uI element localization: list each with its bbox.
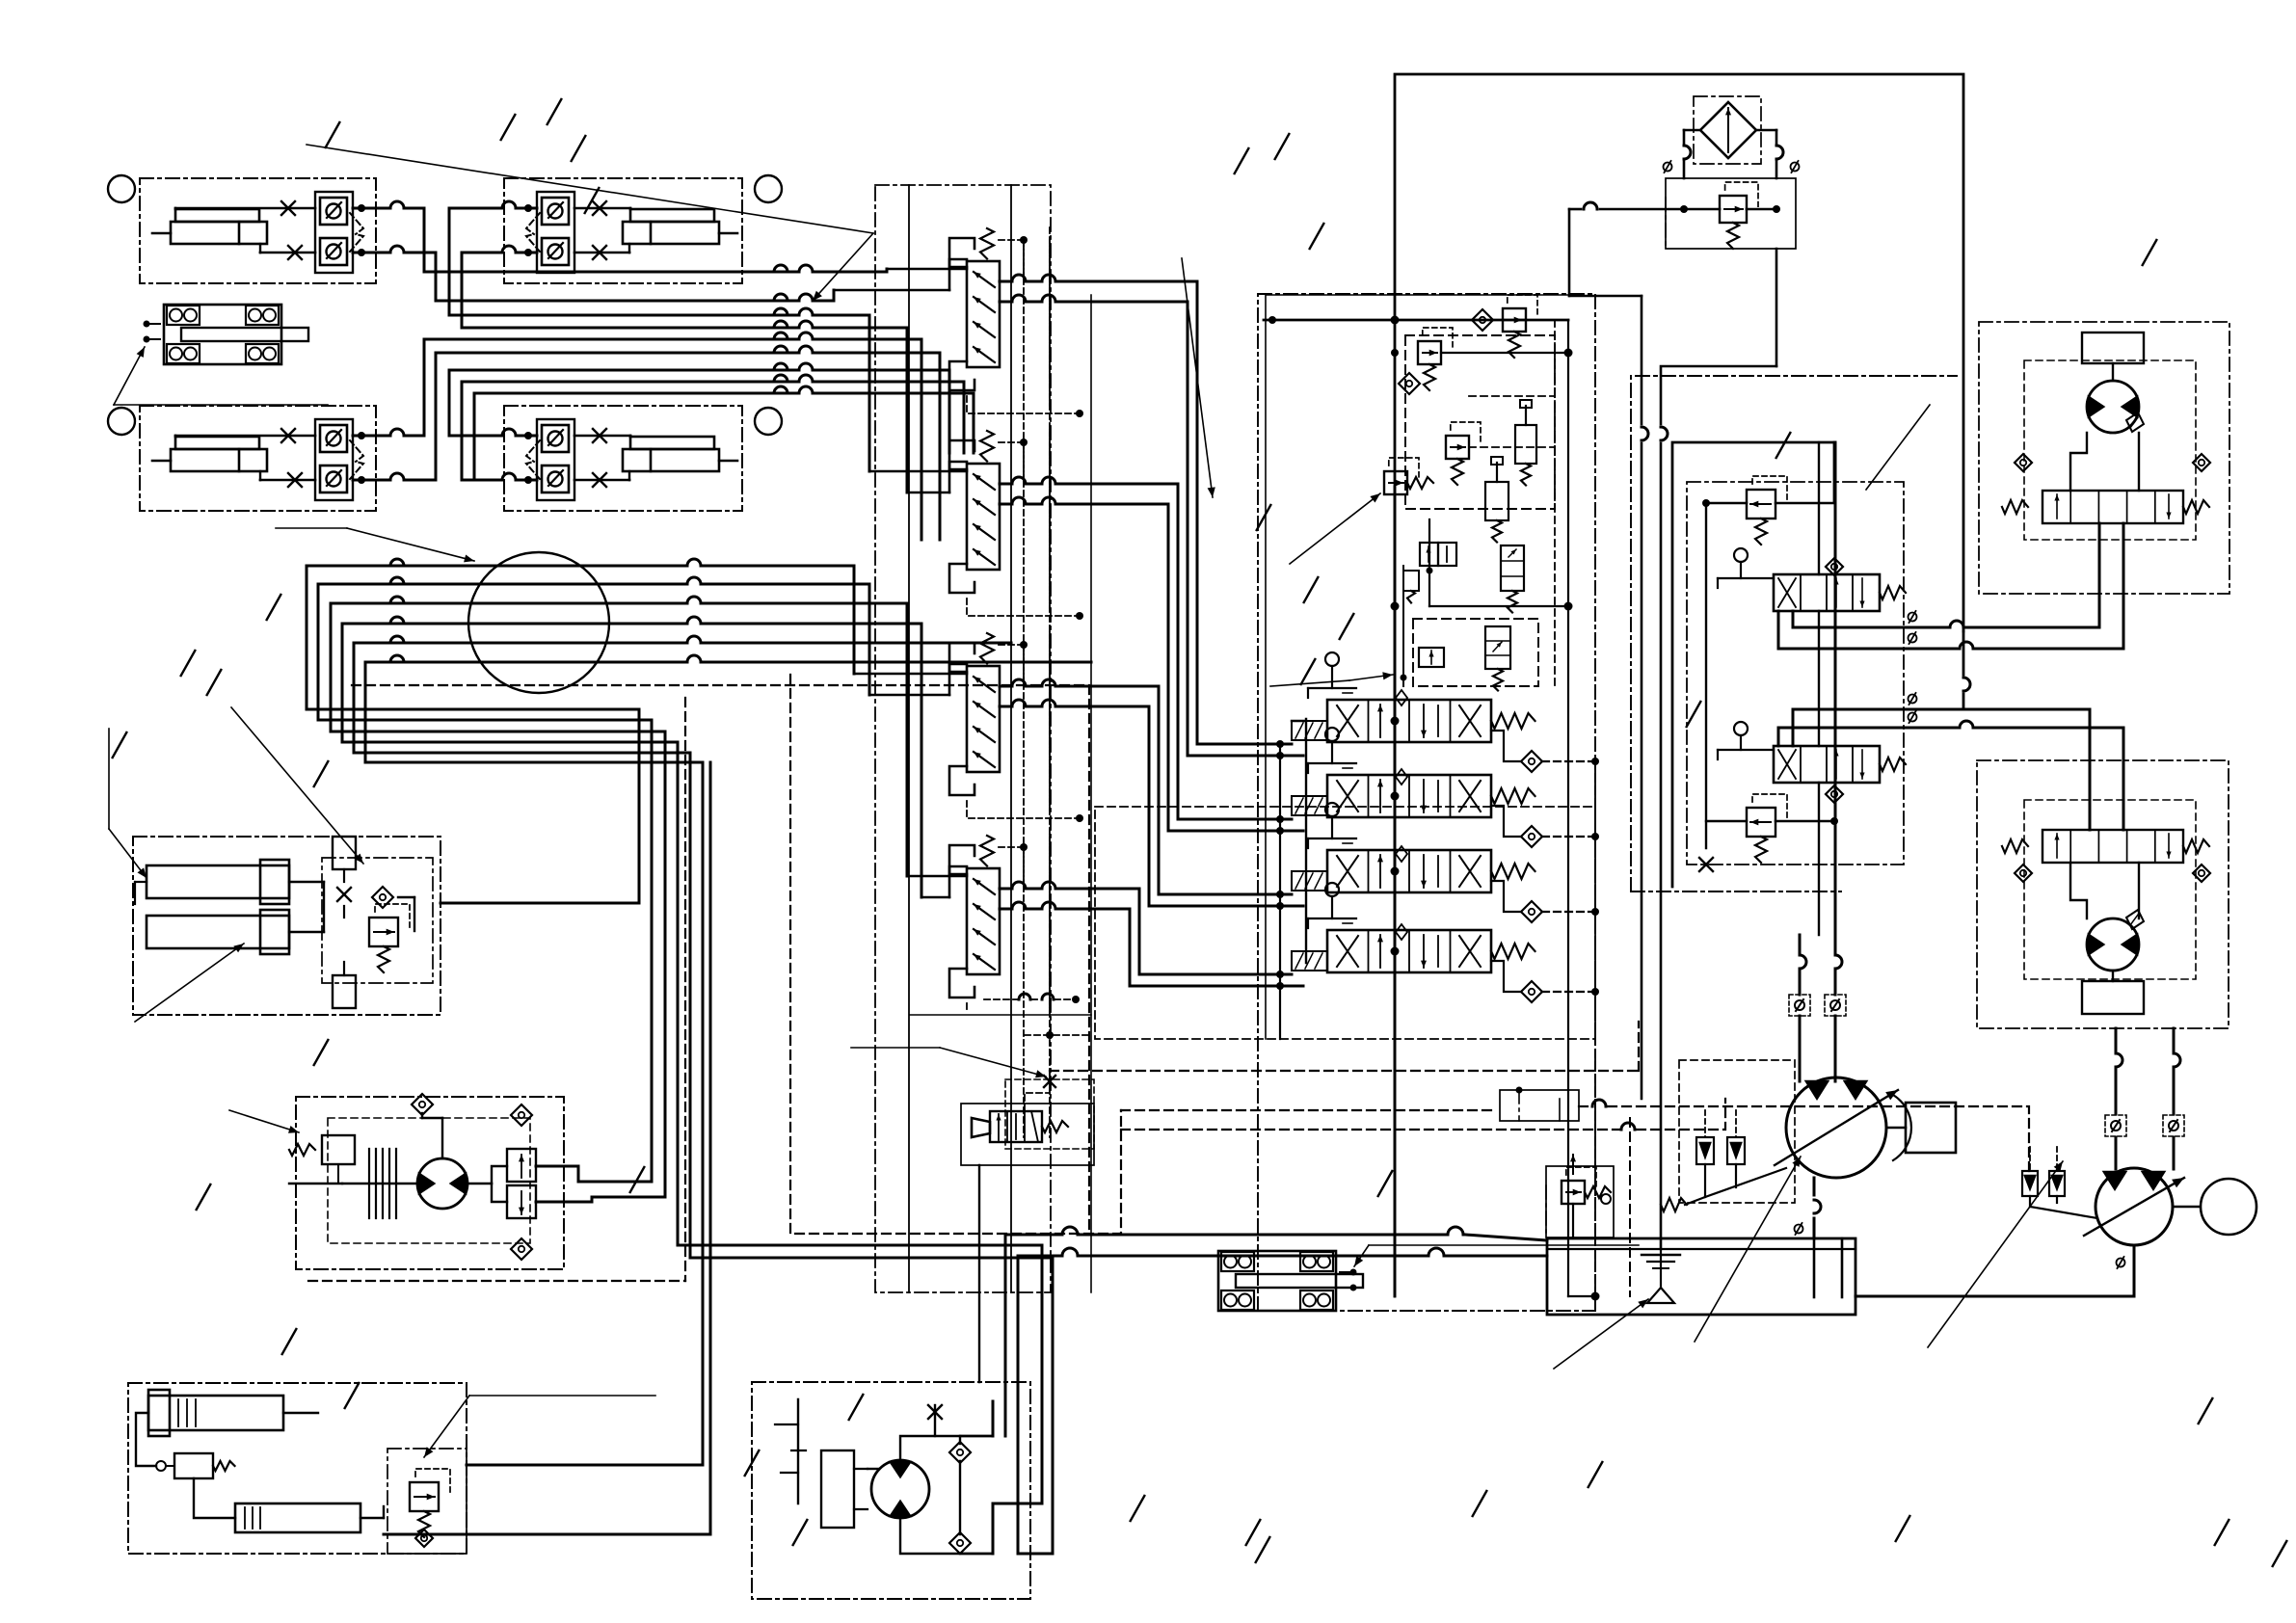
blade cylinder 1 [147, 860, 324, 904]
front left outrigger cylinder [171, 222, 267, 244]
second pump feed lines [2116, 1028, 2180, 1089]
blade cylinder group boundary [133, 837, 441, 1015]
main pump control dashed box [1679, 1060, 1795, 1203]
leader to track lower [1354, 1245, 1639, 1266]
frame boundary [1395, 74, 1963, 1296]
second pump orifice left [2105, 1089, 2126, 1169]
rear right outrigger lock valve block [537, 419, 574, 500]
crawler track symbol upper-left [164, 305, 281, 364]
boom swing group boundary [128, 1383, 467, 1554]
travel relief 1 [1747, 490, 1775, 519]
tank suction strainer [1647, 1288, 1674, 1303]
pilot reducing valve [1384, 471, 1407, 494]
blade group wires [135, 882, 639, 932]
main pump suction [1795, 1178, 1822, 1238]
tank level symbol [1642, 1249, 1680, 1288]
swing check valve top [412, 1094, 433, 1115]
pilot bank solid rail right [1010, 185, 1012, 1292]
swivel line 1 [307, 559, 829, 709]
pilot section 1 dashed pilot lines [967, 227, 1083, 417]
travel relief 2 [1747, 808, 1775, 837]
logic valve block 3 [1419, 648, 1444, 667]
port relief 1 output [1441, 352, 1568, 354]
leader to boom swing valve [424, 1396, 655, 1457]
carrier wire to boom-swing B [709, 762, 712, 1534]
tank dashed drain in [1629, 1118, 1631, 1296]
pilot section 2 feed wires [869, 462, 967, 492]
rear travel wires [2070, 363, 2139, 540]
travel output pair 1 [1778, 525, 2123, 649]
pilot output 1a to spool cap [1099, 281, 1292, 748]
dashed line to pump1 control [1121, 1099, 1725, 1130]
front right outrigger cylinder [623, 222, 719, 244]
fan gear symbol [775, 1399, 806, 1503]
fan motor [871, 1460, 929, 1518]
pilot section 2 dashed pilot lines [967, 430, 1083, 620]
second pump suction [1855, 1245, 2134, 1296]
port relief check [1399, 373, 1420, 394]
filter outlet line [1661, 249, 1776, 440]
logic small relief [1403, 571, 1419, 603]
port relief 2 output [1469, 446, 1555, 448]
bundle wire s2a [814, 315, 869, 471]
spool inlet check 2 [1396, 769, 1407, 785]
main pressure line [1264, 316, 1568, 325]
solenoid drain to fan group [978, 1165, 980, 1382]
solenoid valve body [972, 1111, 1068, 1142]
main spool 1 pilot cap [1292, 721, 1327, 740]
main valve outer dash-dot box [1258, 294, 1595, 1311]
leader arrow upper left [307, 145, 873, 301]
main spool 2 piping [1491, 806, 1599, 840]
boom swing check valve [415, 1530, 433, 1547]
swivel line 3 feeds pilot s4a [829, 603, 907, 876]
swivel line 2 [318, 577, 829, 720]
fan return to tank B [1018, 1248, 1547, 1256]
leader diag top right [1866, 405, 1930, 490]
travel valve X mark [1699, 858, 1713, 871]
boom swing relief box [387, 1449, 467, 1554]
front left outrigger lock valve block [315, 192, 353, 273]
pilot output 2b to spool cap [1099, 504, 1303, 835]
front travel brake valve [2002, 830, 2209, 863]
travel relief 1 wires [1702, 499, 1834, 848]
second pump orifice right [2163, 1089, 2184, 1169]
leader to swing group [229, 1110, 299, 1132]
crawler track symbol lower [1218, 1251, 1336, 1311]
track pilot ports [144, 321, 161, 343]
main control spool 2 [1327, 775, 1491, 817]
wire outrigger B top to bundle [449, 208, 798, 315]
spool inlet check 1 [1396, 690, 1407, 705]
lower spools dashed box [1095, 807, 1595, 1039]
main pump control pistons [1661, 1110, 1786, 1211]
pilot bank dashed rails [1024, 240, 1091, 1292]
second pump [2096, 1168, 2173, 1245]
main valve solid boundary [1266, 295, 1568, 1039]
boom swing wires [136, 1413, 710, 1534]
rear travel motor inner dashed [2024, 360, 2196, 540]
pilot valve section 3 [949, 643, 974, 672]
swivel line 1 feeds pilot s3a [829, 566, 854, 674]
fan check valve lower [949, 1532, 971, 1554]
travel relief 2 wires [1706, 817, 1838, 825]
travel valve 2 check [1826, 785, 1843, 803]
wire outrigger A bottom to bundle [436, 253, 798, 301]
main relief check [1472, 309, 1493, 331]
leader to port relief [1290, 493, 1380, 564]
rear right outrigger boundary box [504, 406, 742, 511]
rear travel gearbox [2082, 333, 2144, 363]
main pump [1786, 1078, 1886, 1178]
main control spool 1 [1327, 700, 1491, 742]
pilot section 3 output wires [1000, 679, 1099, 706]
port relief 2 [1446, 436, 1469, 459]
wire outrigger D bottom to bundle [462, 382, 798, 480]
tank internal suction pipes [1814, 1238, 1842, 1297]
swivel line 6 [365, 655, 829, 762]
pilot valve section 2 [949, 440, 974, 469]
fan check valve upper [949, 1442, 971, 1463]
travel valve outer lines [1672, 442, 1834, 887]
port relief 1 [1418, 341, 1441, 364]
rear travel check left [2015, 454, 2032, 471]
boom swing relief valve [410, 1482, 439, 1511]
bundle wire spare2 [814, 353, 940, 540]
front travel wires [2070, 863, 2139, 981]
pilot output 3b to spool cap [1099, 706, 1303, 910]
main spool 1 piping [1491, 731, 1599, 765]
bundle wire spare4 [814, 382, 964, 453]
carrier wire to swing group A [651, 720, 654, 1182]
rear travel check right [2193, 454, 2210, 471]
main spool 2 check valve [1521, 826, 1542, 847]
wire outrigger B bottom to bundle [462, 253, 798, 328]
pilot output 4b to spool cap [1099, 909, 1303, 990]
relief cluster dashed box [1405, 335, 1555, 509]
swivel line 5 [354, 636, 829, 753]
filter circuit wires [1664, 130, 1800, 178]
wire bundle extra line [474, 393, 798, 480]
swing counterbalance block [507, 1149, 536, 1218]
swivel line 2 feeds pilot s3b [829, 584, 869, 695]
bundle wire spare5 [814, 393, 974, 453]
travel lever valve 1 [1718, 548, 1906, 611]
pilot junction dash-dot box [1500, 1087, 1579, 1122]
pilot section 2 output wires [1000, 477, 1099, 504]
main spool 4 piping [1491, 961, 1599, 996]
front right outrigger lock valve block [537, 192, 574, 273]
rear travel motor boundary [1979, 322, 2229, 594]
swing motor [417, 1158, 467, 1209]
wire outrigger C bottom to bundle [436, 353, 798, 480]
dashed line to pump2 control [1579, 1100, 2029, 1171]
spool inlet check 4 [1396, 924, 1407, 940]
main valve left feed rail [1292, 719, 1306, 963]
carrier wire to fan group A [678, 742, 1042, 1503]
cluster dashed box 2 [1413, 619, 1538, 686]
main valve right rail [1567, 320, 1569, 1296]
pilot section 4 dashed pilot lines [967, 835, 1050, 1013]
front right outrigger wires [449, 201, 630, 259]
leader to blade cylinder [135, 944, 244, 1022]
pump feed line right [1825, 442, 1846, 1081]
main spool pilot rail [1279, 744, 1281, 1039]
wire outrigger A top to bundle [424, 208, 798, 272]
dashed box bottom y1329 [308, 1280, 685, 1282]
solenoid valve dashed box [1005, 1079, 1094, 1149]
leader to blade group [109, 707, 363, 878]
pilot output 4a to spool cap [1099, 889, 1292, 978]
rear right outrigger wires [449, 429, 630, 487]
fan bleed X mark [928, 1405, 942, 1419]
pump feed line left [1789, 935, 1810, 1081]
main spool 3 pilot cap [1292, 871, 1327, 891]
return line from main valve [1569, 202, 1684, 296]
solenoid pilot X mark [1044, 1076, 1055, 1087]
unload actuator 2 [1485, 457, 1508, 543]
pilot section 3 feed wires [854, 664, 967, 695]
pilot relief box [1546, 1166, 1614, 1237]
track lower ports [1340, 1269, 1357, 1291]
rear outrigger left circle marker [108, 408, 135, 435]
leader arrow to solenoid valve [851, 1048, 1046, 1078]
bundle wire s1a [814, 269, 887, 272]
logic valve block 2 [1501, 545, 1524, 613]
fan pump group boundary [752, 1382, 1030, 1599]
leader to second pump region [1928, 1161, 2063, 1347]
relief cluster dashed lines [1391, 320, 1555, 686]
swivel line 4 [342, 617, 829, 742]
boom swing lower cylinder [235, 1503, 384, 1532]
travel drain line [1963, 631, 1970, 709]
pilot section 1 feed wires [834, 259, 967, 290]
leader to main pump [1695, 1157, 1801, 1342]
rail junction dots [1391, 349, 1573, 956]
swing check valve right lower [511, 1238, 532, 1260]
main pressure rail [1394, 487, 1397, 1296]
swing group wires [422, 1113, 665, 1202]
pilot section 3 dashed pilot lines [967, 632, 1083, 822]
bundle hose breaks [774, 265, 813, 393]
main spool 2 pilot cap [1292, 796, 1327, 815]
wire outrigger C top to bundle [424, 339, 798, 436]
pilot bank solid rail left [908, 185, 910, 1292]
main spool 4 check valve [1521, 981, 1542, 1002]
carrier wire to swing group B [664, 732, 667, 1197]
dashed network box left edge [790, 675, 1121, 1234]
return filter relief box [1666, 178, 1796, 249]
rear left outrigger boundary box [140, 406, 376, 511]
swivel line 5 joins rail [829, 642, 1011, 645]
leader line under track [114, 404, 328, 406]
fan group wires [868, 1235, 1018, 1554]
boom swing pilot check valve [156, 1453, 235, 1478]
dashed line mid [1121, 1109, 1492, 1111]
main control spool 4 [1327, 930, 1491, 972]
front outrigger right circle marker [755, 175, 782, 202]
main spool 1 check valve [1521, 751, 1542, 772]
rear left outrigger cylinder [171, 449, 267, 471]
carrier wire to fan group B [690, 753, 1053, 1554]
pilot control boundary dash-dot box [875, 185, 1051, 1292]
travel valve dash-dot box [1687, 482, 1904, 865]
oil filter box [1694, 96, 1761, 164]
main control spool 3 [1327, 850, 1491, 892]
blade damper accumulator bottom [333, 962, 356, 1008]
swivel line 6 joins rail [829, 661, 1091, 664]
cluster solid wires [1401, 519, 1569, 686]
pilot section 4 output wires [1000, 882, 1099, 909]
return relief wires [1680, 205, 1780, 213]
swivel line 4 feeds pilot s4b [829, 624, 921, 897]
pilot output 1b to spool cap [1099, 302, 1303, 759]
front travel check left [2015, 865, 2032, 882]
bundle wire spare3 [814, 370, 949, 453]
fan coupling box [821, 1450, 868, 1528]
leader arrow to swivel [276, 528, 474, 562]
spool inlet check 3 [1396, 846, 1407, 862]
front travel motor symbol [2087, 910, 2144, 971]
rear outrigger right circle marker [755, 408, 782, 435]
front travel motor boundary [1977, 760, 2229, 1028]
leader arrow to track ports [114, 347, 145, 405]
swing check valve right upper [511, 1104, 532, 1126]
carrier wire to blade group [638, 709, 641, 903]
second pump shaft [2173, 1179, 2256, 1235]
leader arrow to main valve box [1182, 258, 1213, 497]
rear travel brake valve [2002, 491, 2209, 523]
unload actuator 1 [1515, 400, 1536, 486]
pilot relief valve [1562, 1155, 1611, 1204]
pilot relief drain [1572, 1204, 1574, 1238]
swing motor inner dashed box [328, 1118, 530, 1243]
swivel joint circle [468, 552, 609, 693]
logic valve block 1 [1420, 543, 1456, 566]
pilot valve section 1 [949, 238, 974, 267]
bundle wire s1b [814, 290, 834, 301]
swing motor group boundary [296, 1097, 564, 1269]
solenoid valve box [961, 1104, 1094, 1165]
pilot output 3a to spool cap [1099, 686, 1292, 898]
blade relief valve [369, 918, 398, 946]
main pump shaft [1886, 1095, 1956, 1160]
front travel check right [2193, 865, 2210, 882]
blade throttle X [337, 888, 351, 901]
return relief valve [1720, 196, 1747, 223]
second return line [1642, 296, 1648, 1099]
dashed pilot drain line [352, 684, 1089, 686]
oil filter [1700, 102, 1756, 158]
wire outrigger D top to bundle [449, 370, 798, 436]
solenoid dashed connectors [910, 994, 1091, 1111]
logic valve block 4 [1485, 626, 1510, 691]
rear right outrigger cylinder [623, 449, 719, 471]
pilot output 2a to spool cap [1099, 484, 1292, 823]
main return to tank [1660, 443, 1663, 1249]
dashed drain vertical right [1088, 685, 1090, 1229]
main spool 3 check valve [1521, 901, 1542, 922]
front outrigger left circle marker [108, 175, 135, 202]
front right outrigger boundary box [504, 178, 742, 283]
main spool 3 piping [1491, 881, 1599, 916]
rear travel motor symbol [2087, 381, 2144, 433]
leader to relief cluster [1270, 672, 1393, 686]
bundle wire s2b [814, 328, 907, 492]
front left outrigger boundary box [140, 178, 376, 283]
hydraulic tank [1547, 1238, 1855, 1315]
travel output pair 2 [1778, 693, 2123, 830]
main valve return dashed rail [1568, 761, 1600, 1311]
blade damper accumulator top [333, 837, 356, 882]
blade check valve [372, 887, 393, 908]
main relief valve [1503, 308, 1526, 332]
leader to tank strainer [1554, 1299, 1648, 1369]
main spool 4 pilot cap [1292, 951, 1327, 971]
boom swing cylinder [148, 1390, 318, 1436]
rear left outrigger wires [175, 429, 436, 487]
pilot valve section 4 [949, 845, 974, 874]
front travel gearbox [2082, 981, 2144, 1014]
fan return to tank A [1005, 1227, 1547, 1240]
swing brake release piston [289, 1135, 355, 1184]
travel group outer dash-dot boundary [1631, 376, 1957, 891]
swivel line 3 [331, 597, 829, 732]
dashed box vertical x711 [684, 698, 686, 1281]
pilot section 4 feed wires [907, 866, 967, 897]
pilot section 1 output wires [1000, 275, 1099, 302]
dashed line to pump control 1 [1050, 1022, 1639, 1071]
second pump control pistons [2022, 1147, 2097, 1218]
blade valve sub-box [322, 858, 433, 983]
front travel motor inner dashed [2024, 800, 2196, 979]
blade cylinder 2 [147, 910, 324, 954]
carrier wire to boom-swing A [702, 762, 705, 1465]
travel lever valve 2 [1718, 722, 1906, 783]
travel valve 1 check [1826, 558, 1843, 575]
rear left outrigger lock valve block [315, 419, 353, 500]
travel valve rails [1818, 442, 1820, 935]
front left outrigger wires [175, 201, 436, 259]
bundle wire spare1 [814, 339, 921, 540]
swing gearbox brake discs [289, 1149, 417, 1218]
